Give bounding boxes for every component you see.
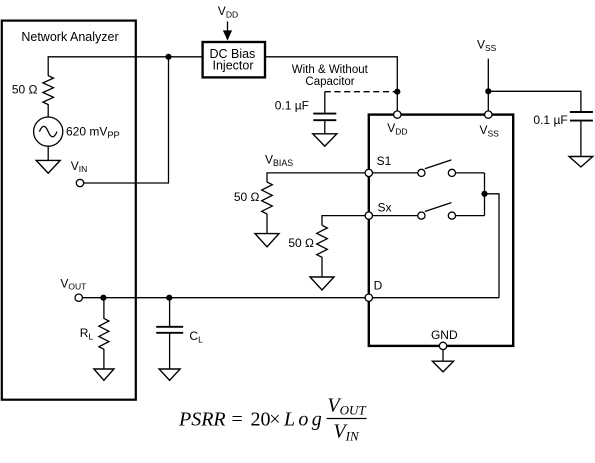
ground under source [36,160,60,173]
pin VSS [485,111,492,118]
capacitor 0.1uF (VDD bypass) [324,92,326,113]
node VIN terminal [76,179,83,186]
node junction dot switches [481,191,487,197]
ground under Sx resistor [310,277,334,290]
node VOUT terminal [75,294,82,301]
svg-text:Sx: Sx [378,201,392,215]
wire top from source to DC Bias Injector [48,57,203,76]
Network Analyzer box [2,21,136,400]
svg-text:S1: S1 [377,154,392,168]
wire VBIAS to S1 [267,173,365,182]
svg-text:50 Ω: 50 Ω [288,236,314,250]
resistor 50 Ohm (VBIAS) [262,182,273,234]
wire GND to ground [442,350,444,362]
svg-text:Capacitor: Capacitor [305,76,354,88]
wire VIN vertical [84,57,169,183]
switch S1 [373,172,418,174]
svg-text:PSRR=20×Log: PSRR=20×Log [178,409,325,431]
wire source to ground [47,146,49,160]
DUT box [369,115,513,346]
capacitor 0.1uF (VSS bypass) [570,111,593,113]
pin GND [439,342,446,349]
ground under VSS cap [569,157,593,168]
wire D row [82,297,499,299]
ground under RL [94,369,114,380]
node junction dot RL [100,295,106,301]
node junction dot at top wire [165,54,171,60]
wire to D [485,194,500,298]
pin D [365,294,372,301]
ground under capacitor [313,134,337,146]
wire VSS to bypass cap [488,91,581,112]
switch Sx [373,215,418,217]
svg-text:GND: GND [431,328,458,342]
wire Sx to resistor [322,216,365,226]
svg-text:D: D [374,279,383,293]
resistor RL [99,298,109,369]
node junction dot VSS [485,88,491,94]
wire DC Bias Injector to VDD pin [266,57,397,115]
wire dashed to capacitor [325,91,395,93]
svg-text:0.1 µF: 0.1 µF [275,98,309,112]
wire VDD arrow [227,21,229,31]
ground under CL [159,369,180,380]
wire VSS supply down [487,59,489,115]
svg-text:With & Without: With & Without [292,64,369,76]
svg-text:Injector: Injector [213,59,254,73]
wire switch common [484,173,486,216]
pin VDD [394,111,401,118]
pin S1 [365,169,372,176]
source V1 620 mVpp sine [34,117,63,146]
svg-text:50 Ω: 50 Ω [12,83,38,97]
DC Bias Injector U1 [203,42,265,77]
capacitor CL [169,298,171,327]
svg-text:0.1 µF: 0.1 µF [533,113,567,127]
resistor 50 Ohm (network analyzer) [43,76,54,117]
node junction dot VDD [394,89,400,95]
svg-text:50 Ω: 50 Ω [234,190,260,204]
node junction dot CL [166,295,172,301]
resistor 50 Ohm (Sx) [317,225,328,277]
svg-text:Network Analyzer: Network Analyzer [21,30,118,44]
pin Sx [365,212,372,219]
ground under GND pin [432,361,453,372]
ground under VBIAS resistor [255,234,279,247]
